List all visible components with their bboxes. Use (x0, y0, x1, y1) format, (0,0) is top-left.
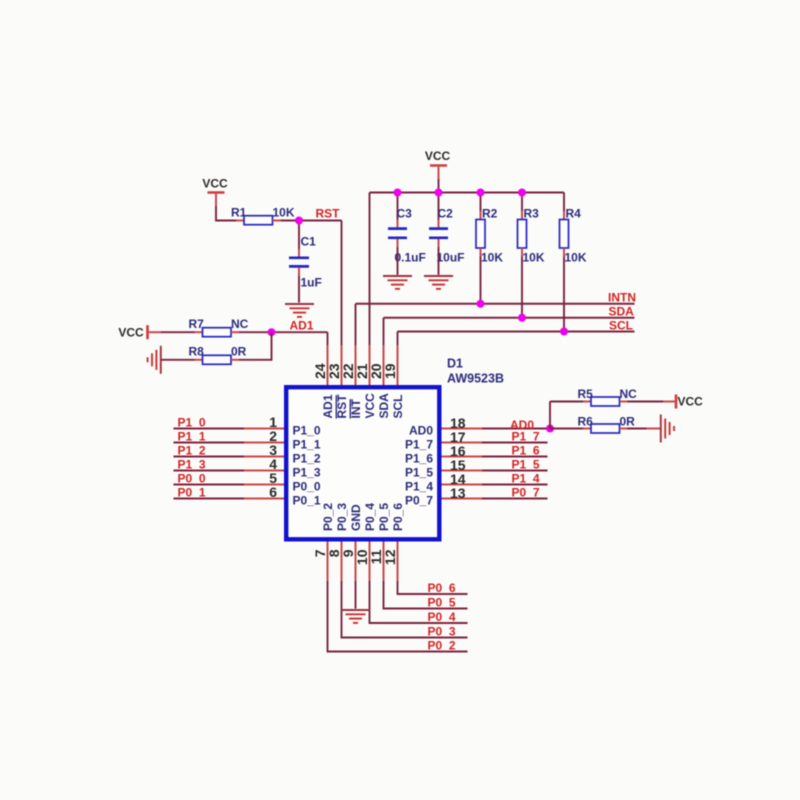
pin name P0_4 inside chip (363, 503, 377, 531)
pin name P0_7 inside chip (405, 494, 433, 508)
designator R6 (578, 415, 594, 429)
wire net P1_3 (174, 470, 245, 472)
svg-text:P0_6: P0_6 (391, 503, 405, 531)
pin 22 stub (355, 345, 357, 385)
wire VCC1 corner (216, 206, 236, 221)
pin 15 stub (442, 470, 483, 472)
wire net P1_5 right (482, 470, 548, 472)
value 0R of R6 (620, 415, 636, 429)
svg-text:P1_1: P1_1 (293, 438, 321, 452)
value 0R of R8 (231, 345, 247, 359)
label P1_3 (178, 458, 206, 472)
label P0_7 (512, 486, 540, 500)
svg-text:10K: 10K (523, 251, 545, 265)
pin C2 upper (438, 220, 440, 228)
wire net P0_2 bend (328, 581, 468, 652)
svg-text:10K: 10K (481, 251, 503, 265)
node RST junction (295, 217, 303, 225)
wire net P0_4 bend (370, 581, 468, 623)
wire R2 bottom (480, 248, 482, 304)
svg-text:10K: 10K (565, 251, 587, 265)
label P1_1 (178, 430, 206, 444)
label P0_1 (178, 486, 206, 500)
pin 20 stub (383, 345, 385, 385)
svg-text:SDA: SDA (609, 305, 635, 319)
svg-text:P0_2: P0_2 (321, 503, 335, 531)
pin number 20 (368, 363, 384, 379)
svg-text:AD1: AD1 (321, 394, 335, 418)
node R4-SCL junction (560, 328, 568, 336)
pin number 8 (326, 549, 342, 557)
pin 21 stub (369, 345, 371, 385)
ground C3 (383, 276, 412, 289)
svg-text:SCL: SCL (391, 395, 405, 419)
capacitor C2 (429, 229, 448, 238)
svg-text:P1_3: P1_3 (178, 458, 206, 472)
svg-text:R5: R5 (578, 387, 594, 401)
wire net P0_3 bend (342, 581, 468, 638)
pin name P0_2 inside chip (321, 503, 335, 531)
svg-text:VCC: VCC (363, 393, 377, 419)
pin R7 left (195, 331, 203, 333)
value 10K of R3 (523, 251, 545, 265)
pin number 2 (269, 428, 277, 444)
pin name GND inside chip (349, 504, 363, 531)
svg-text:1uF: 1uF (301, 276, 322, 290)
pin 11 stub (383, 542, 385, 582)
pin 12 stub (397, 542, 399, 582)
wire pin23 RST vertical (341, 221, 343, 346)
label NC of R7 (231, 317, 249, 331)
wire C3 top (397, 193, 399, 220)
svg-text:P0_4: P0_4 (428, 610, 456, 624)
label P0_4 (428, 610, 456, 624)
label P0_0 (178, 472, 206, 486)
svg-text:AW9523B: AW9523B (447, 372, 504, 386)
svg-text:P1_4: P1_4 (405, 480, 433, 494)
svg-text:P0_0: P0_0 (178, 472, 206, 486)
pin R8 left (195, 359, 203, 361)
svg-text:12: 12 (382, 549, 398, 565)
resistor R2 (476, 220, 485, 249)
pin R6 left (583, 428, 591, 430)
pin number 22 (340, 363, 356, 379)
pin name P0_6 inside chip (391, 503, 405, 531)
pin 4 stub (244, 470, 284, 472)
label AD1 (290, 319, 314, 333)
wire net P1_7 right (482, 442, 548, 444)
wire pin21 VCC vertical (369, 193, 371, 346)
label P1_5 (512, 458, 540, 472)
wire net P0_7 right (482, 498, 548, 500)
pin 23 stub (341, 345, 343, 385)
wire to R5 (550, 401, 583, 403)
svg-text:P1_5: P1_5 (405, 466, 433, 480)
designator D1 (447, 357, 463, 371)
wire AD1 horizontal (239, 331, 328, 333)
ground right of R6 (661, 415, 674, 443)
pin C3 upper (397, 220, 399, 228)
pin C1 lower (298, 268, 300, 276)
pin R8 right (231, 359, 239, 361)
wire AD0 to R6 (550, 428, 583, 430)
svg-text:0R: 0R (620, 415, 636, 429)
overline of RST (335, 395, 337, 418)
overline of INT (349, 399, 351, 418)
pin 2 stub (244, 442, 284, 444)
pin number 21 (354, 363, 370, 379)
svg-text:R2: R2 (482, 207, 498, 221)
wire net P0_1 (174, 498, 245, 500)
pin 16 stub (442, 456, 483, 458)
pin 14 stub (442, 484, 483, 486)
pin 1 stub (244, 428, 284, 430)
resistor R7 (203, 328, 232, 337)
value AW9523B (447, 372, 504, 386)
pin name P1_3 inside chip (293, 466, 321, 480)
pin R5 left (583, 401, 591, 403)
label SCL (609, 319, 633, 333)
ground C1 (285, 304, 314, 317)
pin 6 stub (244, 498, 284, 500)
pin 19 stub (397, 345, 399, 385)
svg-text:R7: R7 (189, 317, 205, 331)
svg-text:P0_0: P0_0 (293, 480, 321, 494)
wire net P0_5 bend (384, 581, 468, 609)
node R3-SDA junction (518, 314, 526, 322)
designator R8 (189, 345, 205, 359)
svg-text:INTN: INTN (608, 291, 636, 305)
svg-text:19: 19 (382, 363, 398, 379)
svg-text:VCC: VCC (678, 395, 704, 409)
pin name P1_0 inside chip (293, 424, 321, 438)
pin number 16 (450, 443, 466, 459)
pin 8 stub (341, 542, 343, 582)
label P1_2 (178, 444, 206, 458)
svg-text:0R: 0R (231, 345, 247, 359)
node rail-C3 junction (394, 189, 402, 197)
wire RST horizontal (281, 220, 342, 222)
svg-text:R4: R4 (566, 207, 582, 221)
wire AD0 up (549, 402, 551, 429)
svg-text:AD0: AD0 (409, 424, 433, 438)
wire VCC rail (370, 192, 565, 194)
svg-text:R6: R6 (578, 415, 594, 429)
pin number 10 (354, 549, 370, 565)
pin name VCC inside chip (363, 393, 377, 419)
value 10uF (437, 251, 465, 265)
pin name P1_1 inside chip (293, 438, 321, 452)
resistor R8 (203, 355, 232, 364)
wire net SCL (398, 331, 635, 333)
svg-text:13: 13 (450, 485, 466, 501)
svg-text:C3: C3 (397, 207, 413, 221)
pin number 6 (269, 484, 277, 500)
svg-text:RST: RST (335, 394, 349, 419)
label AD0 (510, 418, 534, 432)
pin C3 lower (397, 239, 399, 247)
resistor R3 (518, 220, 527, 249)
pin number 11 (368, 549, 384, 564)
wire VCC to rail (438, 179, 440, 193)
wire pin9 GND (355, 581, 357, 609)
power VCC top-left (202, 177, 228, 193)
pin number 13 (450, 485, 466, 501)
node AD0 junction (546, 425, 554, 433)
pin 7 stub (327, 542, 329, 582)
pin R6 right (620, 428, 628, 430)
label P0_5 (428, 596, 456, 610)
IC D1 AW9523B body (286, 387, 439, 539)
wire pin22 INT vertical (355, 304, 357, 345)
svg-text:P0_6: P0_6 (428, 581, 456, 595)
pin number 3 (269, 442, 277, 458)
svg-text:P1_6: P1_6 (512, 444, 540, 458)
wire gnd to R8 (162, 359, 195, 361)
wire C1 bottom (298, 276, 300, 303)
pin name P1_2 inside chip (293, 452, 321, 466)
ground pin9 (341, 610, 370, 623)
pin number 24 (312, 363, 328, 379)
pin number 17 (450, 429, 466, 445)
svg-text:P0_2: P0_2 (428, 639, 456, 653)
value 10K of R1 (273, 206, 295, 220)
pin number 1 (269, 414, 277, 430)
resistor R5 (591, 397, 620, 406)
designator R3 (524, 207, 540, 221)
pin R1 left (236, 220, 244, 222)
svg-text:RST: RST (316, 207, 341, 221)
power VCC left (118, 325, 147, 339)
svg-text:AD1: AD1 (290, 319, 314, 333)
wire pin24 AD1 vertical (327, 332, 329, 345)
svg-text:VCC: VCC (425, 149, 451, 163)
pin 17 stub (442, 442, 483, 444)
svg-text:P1_0: P1_0 (178, 416, 206, 430)
label P1_7 (512, 430, 540, 444)
svg-text:P0_4: P0_4 (363, 503, 377, 531)
svg-text:C2: C2 (438, 207, 454, 221)
designator R4 (566, 207, 582, 221)
svg-text:P1_1: P1_1 (178, 430, 206, 444)
designator R7 (189, 317, 205, 331)
wire net P1_2 (174, 456, 245, 458)
designator R1 (231, 206, 247, 220)
pin name P0_1 inside chip (293, 494, 321, 508)
pin number 23 (326, 363, 342, 379)
capacitor C3 (388, 229, 407, 238)
wire net P0_0 (174, 484, 245, 486)
designator C2 (438, 207, 454, 221)
resistor R6 (591, 424, 620, 433)
wire pin19 SCL vertical (397, 332, 399, 346)
value 0.1uF (395, 251, 426, 265)
wire C3 bottom (397, 247, 399, 275)
pin R5 right (620, 401, 628, 403)
value 10K of R2 (481, 251, 503, 265)
svg-text:10uF: 10uF (437, 251, 465, 265)
pin number 4 (269, 456, 277, 472)
svg-text:P0_5: P0_5 (428, 596, 456, 610)
pin name P1_6 inside chip (405, 452, 433, 466)
pin number 7 (312, 549, 328, 557)
pin name P1_5 inside chip (405, 466, 433, 480)
wire R8 to AD1 (239, 332, 272, 360)
node R2-INTN junction (477, 300, 485, 308)
pin number 18 (450, 415, 466, 431)
svg-text:P1_7: P1_7 (512, 430, 540, 444)
pin 5 stub (244, 484, 284, 486)
capacitor C1 (289, 258, 309, 267)
wire R4 top (563, 193, 565, 220)
label INTN (608, 291, 636, 305)
svg-text:P1_4: P1_4 (512, 472, 540, 486)
wire R4 bottom (563, 248, 565, 332)
pin R1 right (273, 220, 282, 222)
svg-text:R8: R8 (189, 345, 205, 359)
svg-text:P0_3: P0_3 (428, 625, 456, 639)
wire R3 bottom (521, 248, 523, 318)
pin 24 stub (327, 345, 329, 385)
wire net SDA (384, 317, 635, 319)
node AD1 junction (268, 328, 276, 336)
pin 13 stub (442, 498, 483, 500)
pin name P1_4 inside chip (405, 480, 433, 494)
svg-text:VCC: VCC (118, 326, 144, 340)
pin number 5 (269, 470, 277, 486)
svg-text:GND: GND (349, 504, 363, 531)
svg-text:P0_7: P0_7 (512, 486, 540, 500)
pin gnd stub (647, 428, 661, 430)
svg-text:6: 6 (269, 484, 277, 500)
wire R3 top (521, 193, 523, 220)
svg-text:P1_0: P1_0 (293, 424, 321, 438)
label P1_0 (178, 416, 206, 430)
svg-text:P1_6: P1_6 (405, 452, 433, 466)
svg-text:P1_5: P1_5 (512, 458, 540, 472)
wire C2 top (438, 193, 440, 220)
designator C1 (301, 235, 317, 249)
pin name INT inside chip (349, 399, 363, 419)
resistor R1 (244, 216, 273, 225)
svg-text:NC: NC (620, 387, 638, 401)
pin number 12 (382, 549, 398, 565)
wire R5 to VCC (628, 401, 664, 403)
label P1_4 (512, 472, 540, 486)
label SDA (609, 305, 635, 319)
pin C1 upper (298, 249, 300, 257)
svg-text:P1_2: P1_2 (293, 452, 321, 466)
wire pin20 SDA vertical (383, 318, 385, 345)
svg-text:INT: INT (349, 399, 363, 419)
value 1uF (301, 276, 322, 290)
pin name P0_5 inside chip (377, 503, 391, 531)
wire net AD0 right (482, 428, 550, 430)
label P0_3 (428, 625, 456, 639)
wire VCC3 to R7 (161, 331, 195, 333)
svg-text:SCL: SCL (609, 319, 633, 333)
pin 3 stub (244, 456, 284, 458)
wire R6 to gnd (628, 428, 647, 430)
pin number 14 (450, 471, 466, 487)
label RST (316, 207, 341, 221)
pin C2 lower (438, 239, 440, 247)
pin name RST inside chip (335, 394, 349, 419)
label P0_2 (428, 639, 456, 653)
node rail-R2 junction (477, 189, 485, 197)
label P1_6 (512, 444, 540, 458)
ground C2 (424, 276, 453, 289)
pin VCC4 stub (663, 401, 675, 403)
pin VCC stub (438, 167, 440, 179)
wire net INTN (356, 303, 635, 305)
pin name P1_7 inside chip (405, 438, 433, 452)
wire net P1_0 (174, 428, 245, 430)
pin 9 stub (355, 542, 357, 582)
svg-text:P1_7: P1_7 (405, 438, 433, 452)
svg-text:0.1uF: 0.1uF (395, 251, 426, 265)
svg-text:SDA: SDA (377, 393, 391, 419)
svg-text:P0_5: P0_5 (377, 503, 391, 531)
power VCC top-center (425, 149, 451, 166)
pin number 15 (450, 457, 466, 473)
pin name AD1 inside chip (321, 394, 335, 418)
pin number 19 (382, 363, 398, 379)
wire C1 top (298, 221, 300, 250)
designator R2 (482, 207, 498, 221)
designator R5 (578, 387, 594, 401)
pin name SCL inside chip (391, 395, 405, 419)
wire C2 bottom (438, 247, 440, 275)
pin name AD0 inside chip (409, 424, 433, 438)
node rail-C2 junction (435, 189, 443, 197)
pin name SDA inside chip (377, 393, 391, 419)
svg-text:D1: D1 (447, 357, 463, 371)
designator C3 (397, 207, 413, 221)
svg-text:P0_1: P0_1 (178, 486, 206, 500)
pin 10 stub (369, 542, 371, 582)
pin name P0_0 inside chip (293, 480, 321, 494)
power VCC right (676, 395, 703, 409)
node rail-R3 junction (518, 189, 526, 197)
label P0_6 (428, 581, 456, 595)
svg-text:R1: R1 (231, 206, 247, 220)
svg-text:R3: R3 (524, 207, 540, 221)
value 10K of R4 (565, 251, 587, 265)
svg-text:P1_2: P1_2 (178, 444, 206, 458)
wire net P1_6 right (482, 456, 548, 458)
wire net P1_1 (174, 442, 245, 444)
pin 18 stub (442, 428, 483, 430)
wire net P0_6 bend (398, 581, 468, 594)
label NC of R5 (620, 387, 638, 401)
pin VCC3 stub (149, 331, 161, 333)
pin R7 right (231, 331, 239, 333)
wire net P1_4 right (482, 484, 548, 486)
pin VCC1 stub (215, 194, 217, 206)
svg-text:C1: C1 (301, 235, 317, 249)
pin name P0_3 inside chip (335, 503, 349, 531)
pin number 9 (340, 549, 356, 557)
svg-text:10K: 10K (273, 206, 295, 220)
wire R2 top (480, 193, 482, 220)
svg-text:P0_3: P0_3 (335, 503, 349, 531)
svg-text:P0_7: P0_7 (405, 494, 433, 508)
svg-text:P1_3: P1_3 (293, 466, 321, 480)
resistor R4 (560, 220, 569, 249)
ground left of R8 (148, 346, 161, 374)
svg-text:P0_1: P0_1 (293, 494, 321, 508)
